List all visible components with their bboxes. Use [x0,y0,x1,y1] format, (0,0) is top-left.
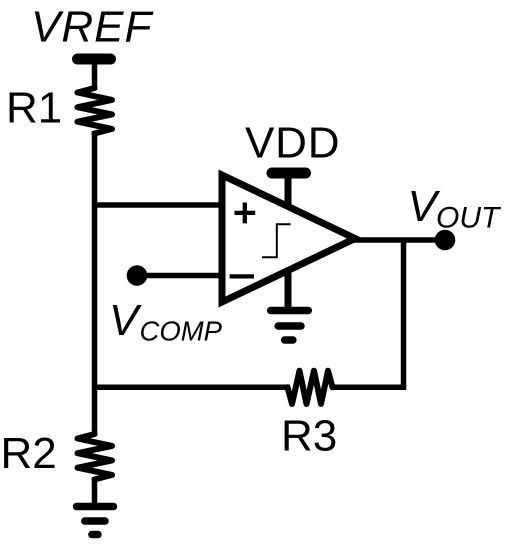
svg-text:R3: R3 [281,412,337,461]
wire ground stem of op-amp [285,273,292,308]
svg-text:OUT: OUT [436,202,502,235]
terminal dot VCOMP [127,265,148,286]
wire VDD stem [285,174,292,206]
wire R2 to ground [92,477,98,504]
svg-text:R2: R2 [1,429,57,478]
wire output [353,237,445,243]
wire VCOMP to - input [137,273,222,279]
hysteresis symbol [262,224,291,257]
wire to + input [92,202,222,208]
wire feedback to left rail [92,385,290,391]
svg-text:R1: R1 [6,84,62,133]
svg-text:V: V [109,296,142,345]
svg-text:VREF: VREF [31,3,153,52]
wire left rail [92,131,98,436]
op-amp + input mark [235,203,256,224]
op-amp - input mark [230,274,254,278]
ground under op-amp [271,307,309,315]
wire output rail down [332,240,404,387]
resistor R1 [78,88,113,134]
resistor R3 [288,371,333,404]
svg-text:VDD: VDD [245,119,340,168]
power symbol VREF bar [78,54,111,65]
resistor R2 [78,434,113,480]
terminal dot VOUT [435,230,456,251]
wire VREF stem [92,59,98,90]
op-amp U1 [222,175,355,302]
svg-text:COMP: COMP [140,316,223,347]
ground bottom [77,503,114,511]
power symbol VDD bar [272,168,306,179]
